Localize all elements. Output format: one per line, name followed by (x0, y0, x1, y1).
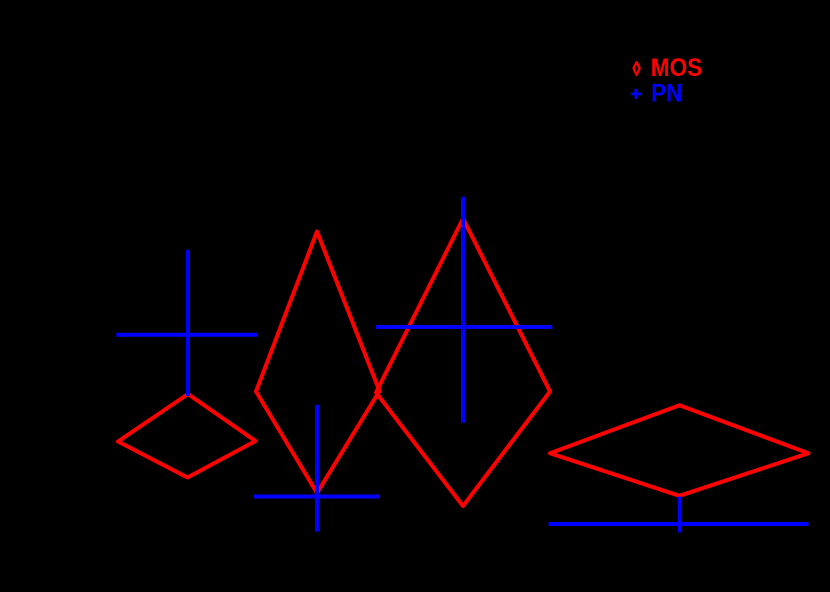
svg-text:PN: PN (651, 80, 682, 108)
PN error cross 1 vertical (blue) (186, 250, 190, 396)
PN error cross 2 vertical (blue) (315, 405, 319, 532)
MOS data diamond 2 (red, point 2) (256, 232, 380, 494)
PN error cross 2 horizontal (blue) (254, 495, 380, 499)
PN error cross 3 vertical (blue) (461, 197, 465, 423)
MOS data diamond 3 (red, point 3) (376, 219, 550, 507)
PN error cross 4 vertical (blue) (678, 497, 682, 533)
PN error cross 3 horizontal (blue) (376, 325, 552, 329)
svg-text:MOS: MOS (651, 54, 703, 82)
legend marker: red diamond for MOS (634, 62, 640, 75)
MOS data diamond 4 (red, point 4) (550, 405, 809, 496)
legend marker: blue plus for PN (631, 89, 641, 99)
PN error cross 1 horizontal (blue) (116, 333, 257, 337)
MOS data diamond 1 (red, point 1) (118, 394, 256, 478)
PN error cross 4 horizontal (blue) (549, 522, 809, 526)
